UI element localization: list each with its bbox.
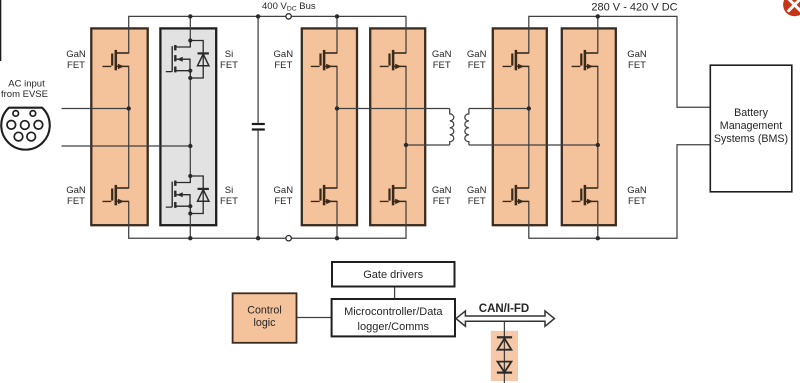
svg-text:GaN: GaN — [467, 49, 487, 60]
svg-text:FET: FET — [220, 60, 238, 71]
svg-text:Si: Si — [225, 49, 233, 60]
svg-text:Battery: Battery — [734, 107, 769, 119]
svg-text:Microcontroller/Data: Microcontroller/Data — [344, 306, 443, 318]
svg-text:Gate drivers: Gate drivers — [363, 269, 423, 281]
svg-text:GaN: GaN — [66, 49, 86, 60]
svg-text:FET: FET — [468, 60, 486, 71]
svg-text:FET: FET — [628, 196, 646, 207]
svg-text:FET: FET — [274, 196, 292, 207]
svg-text:FET: FET — [220, 196, 238, 207]
svg-text:FET: FET — [274, 60, 292, 71]
svg-text:logger/Comms: logger/Comms — [358, 321, 430, 333]
svg-text:Si: Si — [225, 185, 233, 196]
svg-text:from EVSE: from EVSE — [1, 89, 48, 100]
svg-text:FET: FET — [67, 60, 85, 71]
svg-text:GaN: GaN — [432, 185, 452, 196]
svg-text:GaN: GaN — [627, 49, 647, 60]
svg-text:GaN: GaN — [467, 185, 487, 196]
svg-text:GaN: GaN — [432, 49, 452, 60]
svg-text:GaN: GaN — [66, 185, 86, 196]
svg-text:FET: FET — [433, 60, 451, 71]
svg-text:Systems (BMS): Systems (BMS) — [714, 133, 788, 145]
svg-text:FET: FET — [433, 196, 451, 207]
svg-text:Management: Management — [720, 120, 782, 132]
svg-text:FET: FET — [67, 196, 85, 207]
svg-text:CAN/I-FD: CAN/I-FD — [479, 303, 529, 315]
svg-text:GaN: GaN — [274, 49, 294, 60]
svg-text:FET: FET — [628, 60, 646, 71]
svg-text:AC input: AC input — [8, 79, 45, 90]
svg-text:GaN: GaN — [627, 185, 647, 196]
svg-text:280 V - 420 V DC: 280 V - 420 V DC — [591, 1, 677, 13]
svg-text:logic: logic — [254, 317, 277, 329]
svg-text:Control: Control — [247, 305, 281, 317]
svg-text:FET: FET — [468, 196, 486, 207]
svg-text:GaN: GaN — [274, 185, 294, 196]
